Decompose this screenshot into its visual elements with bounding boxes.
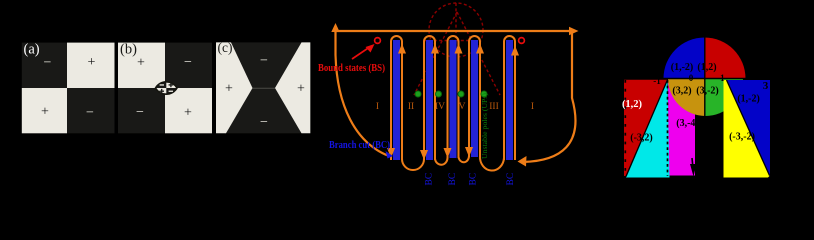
- svg-text:−: −: [184, 55, 192, 70]
- svg-text:−: −: [44, 56, 52, 71]
- svg-text:3: 3: [763, 80, 769, 92]
- svg-text:+: +: [297, 82, 305, 97]
- svg-text:-1: -1: [653, 76, 661, 86]
- svg-text:I: I: [531, 102, 534, 112]
- svg-text:−: −: [86, 106, 94, 121]
- svg-text:−: −: [260, 54, 268, 69]
- svg-text:(1,-2): (1,-2): [737, 93, 760, 104]
- svg-text:BC: BC: [425, 173, 435, 186]
- svg-text:I: I: [376, 102, 379, 112]
- svg-text:+: +: [184, 106, 192, 121]
- svg-text:+: +: [41, 105, 49, 120]
- svg-text:(1,-2): (1,-2): [671, 62, 694, 73]
- svg-text:(a): (a): [24, 42, 40, 58]
- svg-text:−: −: [260, 115, 268, 130]
- svg-text:(b): (b): [120, 42, 137, 58]
- svg-text:+: +: [225, 82, 233, 97]
- svg-text:(-3,2): (-3,2): [630, 133, 653, 144]
- svg-text:IV: IV: [435, 102, 445, 112]
- svg-text:+: +: [137, 56, 145, 71]
- svg-text:Branch cut (BC): Branch cut (BC): [329, 140, 390, 151]
- svg-text:BC: BC: [506, 173, 516, 186]
- svg-text:Bound states (BS): Bound states (BS): [318, 63, 385, 74]
- svg-text:BC: BC: [469, 173, 479, 186]
- svg-text:(c): (c): [218, 40, 233, 55]
- svg-text:BC: BC: [448, 173, 458, 186]
- svg-text:(3,-4): (3,-4): [676, 118, 699, 129]
- svg-text:(1,2): (1,2): [622, 99, 643, 110]
- svg-text:(-3,-2): (-3,-2): [729, 131, 755, 142]
- svg-text:III: III: [489, 102, 499, 112]
- svg-text:0: 0: [689, 73, 694, 83]
- svg-text:1: 1: [720, 73, 725, 83]
- svg-text:V: V: [459, 102, 466, 112]
- svg-text:+: +: [88, 55, 96, 70]
- svg-text:−: −: [136, 105, 144, 120]
- svg-text:(3,-2): (3,-2): [696, 86, 719, 97]
- svg-text:II: II: [408, 102, 414, 112]
- svg-text:(3,2): (3,2): [672, 86, 691, 97]
- svg-text:Unstable poles (UPs): Unstable poles (UPs): [480, 93, 489, 159]
- svg-text:(1,2): (1,2): [697, 62, 716, 73]
